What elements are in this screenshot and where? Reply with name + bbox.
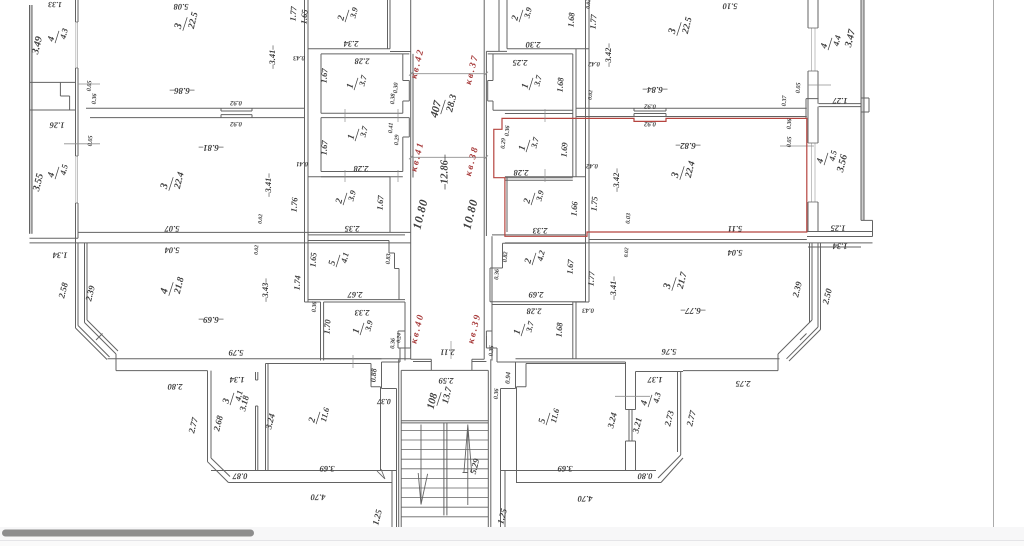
stair up arrow [463, 425, 472, 506]
svg-text:0.05: 0.05 [86, 80, 94, 91]
svg-text:2.35: 2.35 [344, 224, 361, 234]
svg-text:5.04: 5.04 [728, 248, 743, 258]
svg-text:–6.86–: –6.86– [169, 86, 195, 96]
room 1/3.7 kv38 [516, 133, 541, 155]
svg-text:0.36: 0.36 [504, 124, 512, 136]
hall kv40 box [324, 302, 405, 361]
room 2/3.9 top-right walls [486, 0, 589, 51]
svg-text:0.02: 0.02 [624, 247, 631, 257]
svg-text:0.02: 0.02 [258, 214, 265, 224]
right annex outer band2 [683, 370, 778, 372]
hall kv39 walls [486, 331, 492, 348]
right loggia bottom band [807, 232, 873, 248]
left bay chamfer [76, 320, 119, 371]
svg-text:0.36: 0.36 [493, 387, 501, 399]
svg-text:2.25: 2.25 [512, 58, 529, 68]
hall column right wall [573, 49, 576, 177]
stair landing edge [401, 421, 488, 423]
svg-text:0.80: 0.80 [637, 472, 653, 482]
svg-text:0.36: 0.36 [493, 268, 501, 280]
left loggia window frames [76, 22, 78, 203]
left outer wall fill [30, 5, 33, 234]
balcony left wall [208, 371, 212, 462]
hall kv42 box [321, 54, 409, 113]
svg-text:5.04: 5.04 [165, 246, 180, 256]
svg-text:0.05: 0.05 [87, 135, 95, 146]
dim ticks hall walls [345, 109, 545, 182]
svg-text:5.76: 5.76 [661, 347, 677, 357]
room 3/4.1 bottom [211, 470, 266, 472]
svg-text:0.29: 0.29 [393, 134, 401, 145]
red outline kv38 [494, 118, 807, 236]
svg-text:–6.81–: –6.81– [198, 143, 224, 153]
svg-text:2.11: 2.11 [440, 348, 455, 358]
room 2/4.2 [522, 246, 547, 268]
svg-text:2.67: 2.67 [347, 290, 364, 300]
svg-text:1.68: 1.68 [566, 11, 577, 27]
room 5/11.6 right wall [626, 362, 636, 471]
wall band below 22.4 right [505, 240, 873, 243]
porch left walls [381, 336, 411, 527]
left lower outer wall [76, 243, 88, 328]
svg-text:0.42: 0.42 [585, 162, 597, 169]
svg-text:1.33: 1.33 [48, 0, 62, 9]
mid rooms right box [490, 235, 586, 361]
stair stringers [444, 423, 447, 516]
corridor left wall [411, 0, 413, 359]
stair treads [401, 430, 488, 516]
svg-text:2.34: 2.34 [344, 39, 360, 49]
bottom divider line [0, 540, 1024, 542]
svg-text:–6.69–: –6.69– [198, 315, 224, 325]
svg-text:0.92: 0.92 [643, 103, 655, 110]
room 2/11.6 walls [266, 364, 391, 471]
svg-text:2.69: 2.69 [528, 290, 545, 300]
svg-text:1.67: 1.67 [565, 258, 576, 274]
svg-text:3.69: 3.69 [557, 464, 574, 474]
svg-text:1.65: 1.65 [308, 251, 319, 267]
room 1/3.7 kv39 [511, 317, 536, 339]
room 1/3.7 kv42 [344, 71, 369, 93]
svg-text:1.75: 1.75 [589, 195, 600, 211]
stair shaft right wall [488, 359, 491, 527]
svg-text:3.69: 3.69 [319, 464, 336, 474]
svg-text:2.75: 2.75 [735, 379, 752, 389]
right outer wall fill [861, 0, 864, 220]
big rooms left wall right wing [573, 0, 589, 359]
room 5/11.6 walls [517, 364, 657, 471]
svg-text:1.69: 1.69 [559, 141, 570, 157]
svg-text:1.25: 1.25 [830, 224, 846, 234]
room 2/11.6 outer floor line [228, 482, 392, 484]
bottom below divider [0, 541, 1024, 546]
svg-text:1.27: 1.27 [832, 96, 848, 106]
bottom outer band right [516, 359, 780, 362]
svg-text:0.92: 0.92 [229, 120, 241, 127]
right loggia windows [812, 28, 816, 202]
svg-text:2.80: 2.80 [167, 382, 184, 392]
left loggia inner wall [76, 0, 79, 243]
svg-text:1.37: 1.37 [647, 375, 663, 385]
jog 0.92 right [634, 108, 666, 116]
svg-text:0.36: 0.36 [311, 300, 319, 312]
room 2/3.9 lower-right walls [505, 177, 586, 232]
vestibule door posts [431, 359, 472, 370]
svg-text:1.67: 1.67 [319, 67, 330, 83]
svg-text:1.26: 1.26 [49, 121, 65, 131]
dim tick 1.37 right [615, 395, 650, 397]
corridor bottom walls [411, 359, 487, 361]
left loggia mid divider [30, 82, 76, 110]
porch left arrow [377, 469, 385, 479]
vestibule top wall [401, 369, 488, 371]
svg-text:–3.41–: –3.41– [608, 276, 618, 301]
svg-text:–6.82–: –6.82– [675, 141, 701, 151]
jog 0.92 left [221, 108, 252, 117]
room 3/4.1 [220, 387, 245, 408]
hall kv41 box [321, 118, 409, 177]
wall band rooms right 22.5/22.4 [576, 108, 807, 116]
room 4/21.8 [158, 272, 187, 299]
room 2/3.9 lower-left walls [308, 177, 390, 233]
svg-text:1.65: 1.65 [299, 8, 310, 24]
wall 3/4.1 and 2/11.6 [256, 372, 258, 471]
svg-text:0.02: 0.02 [588, 90, 595, 100]
left loggia outer wall [30, 5, 33, 234]
svg-text:–3.42–: –3.42– [611, 168, 621, 193]
svg-text:4.70: 4.70 [577, 494, 594, 504]
svg-text:0.02: 0.02 [586, 0, 593, 9]
dim tick 2.11 [353, 341, 451, 368]
right bay chamfer [778, 320, 821, 371]
svg-text:0.92: 0.92 [229, 99, 241, 106]
stair shaft left wall [399, 359, 402, 527]
svg-text:0.05: 0.05 [786, 136, 794, 147]
svg-text:5.07: 5.07 [164, 224, 180, 234]
bottom bar strip [0, 527, 1024, 546]
svg-text:0.02: 0.02 [254, 245, 261, 255]
room 4/4.3 r [638, 388, 663, 410]
room 3/22.5 left [172, 7, 201, 34]
svg-text:0.30: 0.30 [392, 82, 400, 93]
big rooms right wall [305, 0, 324, 361]
svg-text:0.41: 0.41 [296, 160, 308, 167]
svg-text:2.33: 2.33 [532, 226, 549, 236]
svg-text:–3.41–: –3.41– [263, 173, 273, 198]
room 4/4.5 r [814, 146, 839, 168]
svg-text:0.24: 0.24 [396, 333, 403, 343]
svg-text:0.42: 0.42 [587, 60, 599, 67]
svg-text:0.03: 0.03 [625, 213, 633, 224]
svg-text:2.33: 2.33 [354, 308, 371, 318]
right annex outer floor line [517, 482, 662, 484]
room 1/3.7 kv41 [345, 122, 370, 144]
room 5/4.1 box [308, 235, 405, 302]
svg-text:0.37: 0.37 [376, 397, 391, 406]
room 4/4.4 [818, 32, 843, 53]
svg-text:1.76: 1.76 [289, 196, 300, 212]
porch right walls [487, 336, 517, 527]
room 2/3.9 tl [335, 3, 360, 25]
room 5/4.1 [326, 249, 351, 270]
room 1/3.9 kv40 [350, 316, 375, 338]
room 4/4.3 loggia [45, 24, 70, 46]
room 2/3.9 tr [509, 3, 534, 25]
svg-text:4.70: 4.70 [310, 493, 327, 503]
svg-text:5.08: 5.08 [173, 2, 189, 12]
svg-text:1.74: 1.74 [292, 275, 303, 291]
svg-text:0.36: 0.36 [786, 117, 794, 129]
horizontal scrollbar [2, 530, 254, 537]
right loggia inner wall [808, 0, 818, 232]
svg-text:0.29: 0.29 [500, 138, 508, 149]
svg-text:–3.43–: –3.43– [260, 278, 270, 303]
svg-text:1.66: 1.66 [569, 200, 580, 216]
right bay walls [810, 243, 821, 330]
svg-text:2.59: 2.59 [438, 376, 455, 386]
stair down arrow [418, 425, 427, 505]
corridor right wall [484, 0, 486, 359]
svg-text:1.70: 1.70 [322, 318, 333, 334]
svg-text:–12.86–: –12.86– [439, 154, 451, 190]
svg-text:2.28: 2.28 [526, 307, 543, 317]
right loggia mid divider [806, 98, 869, 118]
room 407/28.3 [428, 90, 459, 123]
left loggia bottom band [30, 238, 79, 243]
corridor dim line mid [409, 155, 488, 159]
svg-text:2.28: 2.28 [353, 164, 370, 174]
svg-text:0.38: 0.38 [389, 93, 397, 104]
svg-text:0.05: 0.05 [795, 82, 803, 93]
svg-text:–6.77–: –6.77– [680, 306, 706, 316]
svg-text:5.10: 5.10 [722, 2, 738, 12]
wall band between rooms 22.5/22.4 [86, 108, 305, 117]
room 2/3.9 mr [521, 186, 546, 208]
svg-text:1.34: 1.34 [53, 251, 68, 261]
room 2/3.9 ml [333, 186, 358, 208]
svg-text:1.68: 1.68 [554, 321, 565, 337]
svg-text:0.92: 0.92 [643, 120, 655, 127]
svg-text:1.34: 1.34 [833, 242, 848, 252]
svg-text:1.77: 1.77 [586, 270, 597, 286]
wall band below 22.4 left [78, 232, 411, 243]
room 108/13.7 [425, 382, 455, 414]
svg-text:0.36: 0.36 [91, 92, 99, 104]
svg-text:0.37: 0.37 [781, 94, 789, 106]
tick line 0.05 right [780, 145, 814, 147]
hall kv38 bottom wall [505, 178, 573, 181]
svg-text:0.43: 0.43 [581, 307, 593, 314]
svg-text:0.41: 0.41 [387, 122, 395, 133]
svg-text:0.87: 0.87 [232, 472, 248, 482]
svg-text:0.82: 0.82 [502, 251, 510, 262]
svg-text:2.28: 2.28 [513, 168, 530, 178]
room 5/11.6 [536, 404, 561, 428]
svg-text:1.77: 1.77 [288, 5, 299, 21]
svg-text:5.79: 5.79 [228, 348, 244, 358]
svg-text:–6.84–: –6.84– [642, 85, 668, 95]
room 2/3.9 top-left walls [308, 0, 411, 52]
room 1/3.7 kv37 [519, 71, 544, 93]
svg-text:–3.42–: –3.42– [603, 43, 613, 68]
room 3/22.5 right [666, 12, 695, 39]
svg-text:1.77: 1.77 [588, 13, 599, 29]
svg-text:0.94: 0.94 [505, 371, 513, 384]
bottom outer band left [108, 359, 382, 371]
svg-text:2.28: 2.28 [354, 57, 371, 67]
room 4/21.8 east wall segs [324, 358, 411, 360]
svg-text:5.11: 5.11 [728, 224, 742, 234]
svg-text:0.36: 0.36 [488, 344, 496, 356]
svg-text:1.67: 1.67 [375, 194, 386, 210]
svg-text:0.88: 0.88 [369, 368, 379, 382]
tick line 0.05 left [64, 143, 100, 145]
room 3/21.7 [661, 267, 690, 295]
svg-text:–3.41–: –3.41– [267, 45, 277, 70]
left top wall jog [78, 83, 100, 85]
svg-text:0.83: 0.83 [385, 253, 393, 264]
svg-text:0.43: 0.43 [292, 54, 304, 61]
room 2/11.6 [306, 403, 331, 427]
svg-text:2.30: 2.30 [525, 40, 542, 50]
balcony chamfer right [658, 455, 683, 483]
balcony chamfer left [208, 458, 231, 483]
corridor dim line top [409, 72, 488, 76]
room 3/22.4 right [669, 156, 698, 183]
right loggia outer wall [861, 0, 873, 237]
room 4/4.5 loggia [45, 160, 70, 182]
page right edge line [993, 0, 995, 527]
svg-text:1.68: 1.68 [555, 76, 566, 92]
hall kv37 box [488, 54, 573, 114]
room 3/22.4 left [158, 167, 187, 194]
svg-text:1.67: 1.67 [319, 139, 330, 155]
svg-text:1.34: 1.34 [230, 375, 245, 385]
loggia 4/4.3 walls [636, 372, 684, 456]
